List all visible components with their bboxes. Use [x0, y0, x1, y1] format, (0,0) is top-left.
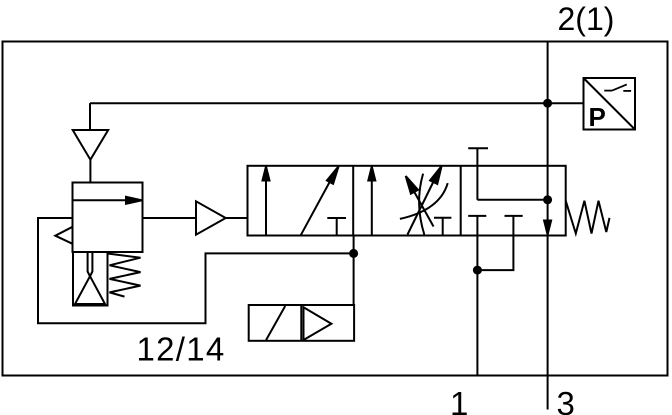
svg-text:12/14: 12/14	[137, 331, 226, 368]
svg-text:2(1): 2(1)	[558, 1, 615, 37]
svg-text:3: 3	[557, 385, 575, 415]
svg-text:P: P	[589, 102, 606, 132]
svg-text:1: 1	[450, 385, 468, 415]
